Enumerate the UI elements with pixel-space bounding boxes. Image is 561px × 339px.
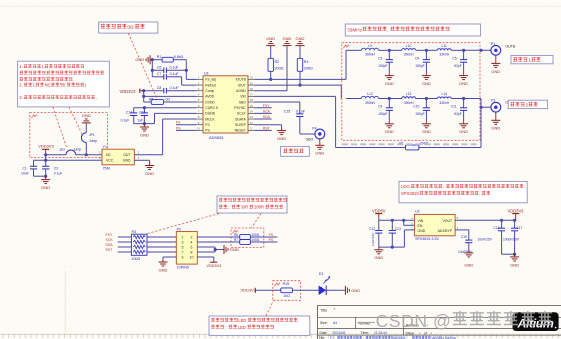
ground port right P2 bbox=[223, 245, 239, 254]
dashed box R6 R7 bbox=[231, 228, 264, 247]
svg-text:LDO: LDO bbox=[401, 184, 410, 189]
power port VDD3V3 LED bbox=[241, 287, 281, 293]
svg-text:GND: GND bbox=[351, 288, 360, 293]
svg-text:IOUT: IOUT bbox=[238, 83, 246, 87]
svg-text:U2: U2 bbox=[415, 210, 420, 214]
ground under C12/C14 bbox=[140, 124, 149, 138]
svg-text:C14: C14 bbox=[126, 110, 132, 114]
svg-text:21:34:44: 21:34:44 bbox=[374, 331, 387, 335]
svg-text:Title: Title bbox=[321, 308, 328, 312]
svg-text:JP1: JP1 bbox=[89, 133, 95, 137]
net label FS right bbox=[269, 233, 274, 237]
svg-text:FS: FS bbox=[205, 123, 210, 127]
leader to R5 bbox=[128, 33, 157, 98]
svg-text:GND: GND bbox=[123, 159, 131, 163]
ground under P2 bbox=[159, 260, 168, 272]
svg-text:DGND: DGND bbox=[205, 112, 215, 116]
net labels FSY SCK SDA RST wires bbox=[106, 233, 177, 252]
note LDO box bbox=[399, 181, 527, 202]
svg-text:VDD3V3: VDD3V3 bbox=[206, 264, 221, 268]
svg-text:P4: P4 bbox=[312, 126, 316, 130]
capacitor C2 0.1uF bbox=[42, 160, 62, 176]
svg-text:200Ω: 200Ω bbox=[275, 66, 284, 70]
svg-text:1.: 1. bbox=[19, 64, 23, 69]
ground LDO output bbox=[510, 254, 519, 267]
svg-text:12: 12 bbox=[250, 121, 254, 125]
svg-text:10PIN5: 10PIN5 bbox=[177, 265, 189, 269]
svg-text:VDD3V3: VDD3V3 bbox=[241, 287, 257, 292]
svg-text:GND: GND bbox=[266, 36, 275, 41]
svg-text:VDD3V3: VDD3V3 bbox=[508, 208, 525, 213]
note digital power 0R box bbox=[99, 22, 158, 33]
resistor R6 100R bbox=[197, 233, 277, 239]
svg-text:10uF/25V: 10uF/25V bbox=[478, 237, 493, 241]
svg-text:390nH: 390nH bbox=[404, 53, 414, 57]
svg-text:11: 11 bbox=[250, 127, 253, 131]
svg-text:,: , bbox=[96, 95, 97, 100]
svg-text:*: * bbox=[334, 307, 336, 312]
svg-text:C19: C19 bbox=[461, 235, 467, 239]
label sine2 out box bbox=[508, 100, 547, 108]
ground GND to AGND bbox=[255, 36, 292, 90]
svg-text:150pF: 150pF bbox=[415, 112, 424, 116]
svg-text:16: 16 bbox=[250, 98, 254, 102]
svg-text:R15: R15 bbox=[283, 282, 289, 286]
svg-text:2024/4/6: 2024/4/6 bbox=[333, 331, 346, 335]
svg-text:,: , bbox=[479, 191, 480, 196]
svg-text:NC: NC bbox=[45, 83, 51, 88]
ground GND above R2 bbox=[266, 36, 275, 58]
svg-text:1uF: 1uF bbox=[137, 119, 143, 123]
ground port right LED bbox=[344, 286, 360, 295]
svg-text:Size:: Size: bbox=[320, 321, 328, 325]
ground under C4 bbox=[422, 75, 431, 86]
svg-text:SPX3819: SPX3819 bbox=[401, 191, 419, 196]
svg-text:GND: GND bbox=[230, 247, 239, 252]
note LED box bbox=[209, 316, 310, 335]
capacitor C13 input bbox=[389, 220, 401, 247]
wire P2 pin9 to gnd bbox=[163, 257, 176, 262]
wire output gnd rail bbox=[502, 253, 517, 256]
wire IOUT to filter bbox=[255, 84, 342, 99]
svg-text:C12: C12 bbox=[139, 110, 145, 114]
svg-text:10uF: 10uF bbox=[21, 171, 29, 175]
power port VDD3V3 crystal bbox=[38, 144, 54, 155]
svg-text:2: 2 bbox=[526, 102, 529, 107]
svg-text:4: 4 bbox=[191, 240, 193, 244]
wire R1-C6 to pin1 bbox=[185, 60, 197, 80]
svg-text:10: 10 bbox=[197, 127, 201, 131]
resistor R1 6.8k bbox=[152, 55, 186, 62]
svg-text:,: , bbox=[387, 28, 388, 33]
svg-text:Date:: Date: bbox=[320, 331, 328, 335]
svg-text:R1: R1 bbox=[157, 55, 162, 59]
svg-text:SCLK: SCLK bbox=[237, 112, 247, 116]
svg-text:of: of bbox=[424, 331, 427, 335]
svg-text:FS: FS bbox=[176, 120, 181, 124]
svg-text:VCC: VCC bbox=[106, 159, 114, 163]
wire filter row1 out bbox=[464, 49, 491, 52]
inductor L9 390nH bbox=[346, 44, 389, 57]
svg-text:200R: 200R bbox=[254, 204, 264, 209]
regulator U2 SPX3819 bbox=[411, 210, 458, 242]
svg-text:6: 6 bbox=[191, 245, 193, 249]
capacitor C16 10uF bbox=[478, 220, 506, 254]
svg-text:C2: C2 bbox=[54, 166, 58, 170]
wire Y1 OUT to MCLK pin8 bbox=[134, 119, 196, 155]
svg-text:10: 10 bbox=[190, 255, 194, 259]
svg-text:AD9834: AD9834 bbox=[209, 135, 224, 140]
svg-text:1: 1 bbox=[528, 58, 531, 63]
note crystal usage box bbox=[18, 61, 110, 107]
connector P1 OUTB bbox=[491, 42, 516, 55]
svg-text:GND: GND bbox=[315, 151, 324, 156]
svg-text:AVDD: AVDD bbox=[205, 95, 215, 99]
watermark CSDN bbox=[358, 311, 553, 331]
net label PS right bbox=[269, 238, 274, 242]
svg-text:82pF: 82pF bbox=[454, 64, 462, 68]
svg-text:33R: 33R bbox=[241, 204, 249, 209]
svg-text:ADJ/BYP: ADJ/BYP bbox=[438, 229, 453, 233]
svg-text:GND: GND bbox=[422, 81, 431, 86]
wire caps bottom rail bbox=[34, 175, 48, 178]
svg-text:GND: GND bbox=[459, 129, 468, 134]
svg-text:L13: L13 bbox=[406, 92, 412, 96]
connector P3 OUTA bbox=[491, 99, 516, 113]
ground right of Y1 bbox=[145, 163, 154, 176]
svg-text:R3: R3 bbox=[132, 230, 137, 234]
resistor R7 100R bbox=[197, 238, 277, 244]
svg-text:VIN: VIN bbox=[240, 95, 246, 99]
ground under P3 bbox=[491, 112, 500, 131]
svg-text:Y1: Y1 bbox=[103, 145, 108, 149]
title block bbox=[318, 305, 561, 339]
power port VDD3V3 under P2 bbox=[197, 257, 221, 268]
svg-text:8: 8 bbox=[191, 250, 193, 254]
ground GND above JP1 bbox=[82, 113, 91, 123]
svg-text:GND: GND bbox=[422, 129, 431, 134]
svg-text:A4: A4 bbox=[333, 321, 337, 325]
power port VDD3V3 out bbox=[508, 208, 525, 220]
svg-text:C3: C3 bbox=[378, 56, 382, 60]
svg-text:GND: GND bbox=[41, 185, 50, 190]
wire input gnd rail bbox=[379, 246, 405, 249]
LED D1 bbox=[319, 272, 345, 295]
svg-text:C6: C6 bbox=[157, 66, 162, 70]
ground GND port left of R1 bbox=[135, 55, 152, 64]
svg-text:9: 9 bbox=[182, 255, 184, 259]
svg-text:LED: LED bbox=[238, 318, 246, 323]
svg-text:0Ω: 0Ω bbox=[127, 24, 134, 30]
svg-text:FS: FS bbox=[269, 233, 274, 237]
svg-text:7: 7 bbox=[182, 250, 184, 254]
wire SLEEP to gnd bbox=[255, 125, 282, 131]
inductor L14 330nH bbox=[426, 92, 463, 105]
svg-text:C13: C13 bbox=[395, 227, 401, 231]
svg-text:0.1uF: 0.1uF bbox=[296, 110, 305, 114]
svg-text:R6: R6 bbox=[234, 233, 238, 237]
svg-text:OUT: OUT bbox=[123, 153, 131, 157]
svg-text:330nH: 330nH bbox=[439, 53, 449, 57]
svg-text:C16: C16 bbox=[493, 226, 499, 230]
svg-text:Comp: Comp bbox=[205, 89, 214, 93]
svg-text:SCK: SCK bbox=[106, 238, 114, 242]
svg-text:18: 18 bbox=[250, 87, 254, 91]
wire EN tie bbox=[404, 220, 415, 225]
ground under P1 bbox=[491, 55, 500, 74]
dashed box 33MHz filter bbox=[342, 43, 480, 141]
svg-text:DVDD: DVDD bbox=[205, 100, 215, 104]
svg-text:20: 20 bbox=[250, 76, 254, 80]
connector P2 header bbox=[176, 228, 197, 270]
svg-text:GND: GND bbox=[491, 69, 500, 74]
svg-text:R2: R2 bbox=[275, 60, 280, 64]
svg-text:5: 5 bbox=[182, 245, 184, 249]
wire caps gnd rail to DGND pin7 bbox=[134, 113, 197, 125]
capacitor C12b 10uF input bbox=[369, 220, 382, 247]
svg-text:100Ω: 100Ω bbox=[251, 238, 260, 242]
testpoint P4 SBO bbox=[306, 126, 325, 141]
svg-text:GND: GND bbox=[491, 126, 500, 131]
wire Y1 GND pin bbox=[134, 160, 149, 165]
svg-text:13: 13 bbox=[250, 115, 254, 119]
svg-text:GND: GND bbox=[464, 262, 473, 267]
svg-text:VIN: VIN bbox=[418, 219, 424, 223]
capacitor C10 150pF bbox=[413, 97, 430, 123]
svg-text:C7: C7 bbox=[157, 72, 162, 76]
svg-text:VDD5V: VDD5V bbox=[372, 208, 386, 213]
capacitor C19 10nF bbox=[455, 230, 473, 254]
svg-text:SBO: SBO bbox=[239, 100, 246, 104]
svg-text:390nH: 390nH bbox=[365, 53, 375, 57]
svg-text:19: 19 bbox=[250, 81, 254, 85]
label square wave out box bbox=[281, 146, 310, 156]
svg-text:RefOut: RefOut bbox=[205, 83, 216, 87]
svg-text:1kΩ: 1kΩ bbox=[284, 294, 291, 298]
wire CAP2.5 rail bbox=[134, 106, 197, 109]
svg-text:CAP/2.5: CAP/2.5 bbox=[205, 106, 218, 110]
svg-text:GND: GND bbox=[277, 136, 286, 141]
wire VDD5V rail bbox=[379, 219, 415, 222]
svg-text:Jump: Jump bbox=[89, 139, 97, 143]
wire VOUT rail bbox=[455, 219, 516, 222]
svg-text:FSY: FSY bbox=[106, 233, 113, 237]
capacitor C14 0.1uF bbox=[121, 108, 138, 124]
svg-text:C17: C17 bbox=[516, 226, 522, 230]
svg-text:0Ω: 0Ω bbox=[166, 97, 171, 101]
svg-text:PS: PS bbox=[269, 238, 274, 242]
dashed box R15 bbox=[273, 281, 301, 301]
svg-text:Sheet: Sheet bbox=[406, 331, 415, 335]
svg-text:6.8kΩ: 6.8kΩ bbox=[174, 55, 184, 59]
op-amp U1 AD9834 body bbox=[203, 70, 248, 140]
svg-text:10uF/16V: 10uF/16V bbox=[371, 232, 375, 246]
svg-text:14: 14 bbox=[250, 110, 254, 114]
capacitor C1 10uF bbox=[21, 160, 37, 176]
capacitor C9 150pF bbox=[378, 97, 393, 123]
jumper JP1 bbox=[81, 123, 97, 155]
blanket dashed line bbox=[342, 143, 478, 145]
ground under C5 bbox=[459, 75, 468, 86]
wire filter row2 out bbox=[464, 99, 491, 109]
leader to JP1 bbox=[69, 107, 82, 134]
svg-text:Jump: Jump bbox=[73, 148, 81, 152]
svg-text:SDA: SDA bbox=[106, 243, 114, 247]
leader to JP2 bbox=[53, 107, 67, 149]
svg-text:C11: C11 bbox=[451, 105, 457, 109]
svg-text:GND: GND bbox=[385, 129, 394, 134]
inductor L10 390nH bbox=[389, 44, 426, 57]
svg-text:3.: 3. bbox=[19, 95, 23, 100]
ground under SLEEP bbox=[277, 129, 286, 141]
wire SBO to C15 bbox=[255, 102, 300, 114]
capacitor C15 0.1uF bbox=[284, 110, 315, 134]
svg-text:;: ; bbox=[524, 184, 525, 189]
svg-text:150pF: 150pF bbox=[378, 112, 387, 116]
net label FSY bbox=[255, 104, 272, 108]
ground under P4 bbox=[315, 139, 324, 156]
resistor network R3 100R bbox=[131, 230, 147, 261]
inductor L12 390nH bbox=[346, 92, 389, 105]
svg-text:FS_adj: FS_adj bbox=[205, 78, 216, 82]
svg-text:R4: R4 bbox=[304, 60, 309, 64]
inductor L13 390nH bbox=[389, 92, 426, 105]
svg-text:0.1uF: 0.1uF bbox=[170, 86, 179, 90]
capacitor C8 0.1uF bbox=[142, 86, 196, 93]
svg-text:—CSDN @: —CSDN @ bbox=[358, 311, 452, 331]
ground LDO input bbox=[374, 247, 383, 260]
node junction R1/C6/C7 column bbox=[151, 58, 154, 77]
svg-text:R7: R7 bbox=[234, 238, 238, 242]
ground under C9 bbox=[385, 123, 394, 134]
note 33MHz filter box bbox=[345, 24, 480, 36]
inductor L11 330nH bbox=[426, 44, 463, 57]
svg-text:VDD3V3: VDD3V3 bbox=[120, 89, 137, 94]
svg-text:OUTB: OUTB bbox=[505, 44, 516, 48]
svg-text:.: . bbox=[491, 191, 492, 196]
svg-text:GND: GND bbox=[283, 36, 292, 41]
ground under C1 C2 bbox=[41, 176, 50, 190]
svg-text:RST: RST bbox=[106, 248, 114, 252]
svg-text:0.1uF: 0.1uF bbox=[170, 72, 179, 76]
svg-text:U1: U1 bbox=[204, 70, 209, 75]
capacitor C12 1uF bbox=[137, 108, 148, 124]
svg-text:GND: GND bbox=[385, 81, 394, 86]
svg-text:C9: C9 bbox=[378, 105, 382, 109]
svg-text:L9: L9 bbox=[368, 44, 372, 48]
svg-text:330nH: 330nH bbox=[439, 101, 449, 105]
svg-text:C10: C10 bbox=[413, 105, 419, 109]
svg-text:D1: D1 bbox=[319, 272, 324, 276]
dashed box crystal section bbox=[30, 112, 108, 157]
svg-text:C12: C12 bbox=[369, 227, 375, 231]
net label SCK bbox=[255, 110, 272, 114]
capacitor C7 0.1uF bbox=[152, 72, 196, 85]
svg-text:PS: PS bbox=[176, 126, 181, 130]
svg-text:GND: GND bbox=[374, 255, 383, 260]
svg-text:2.: 2. bbox=[19, 83, 23, 88]
resistor R2 200R bbox=[268, 58, 284, 79]
svg-text:L10: L10 bbox=[406, 44, 412, 48]
svg-text:MCLK: MCLK bbox=[205, 117, 215, 121]
capacitor C6 0.1uF bbox=[152, 66, 186, 74]
svg-text:0.1uF: 0.1uF bbox=[170, 66, 179, 70]
svg-text:100Ω: 100Ω bbox=[251, 233, 260, 237]
wire IOUTB to filter bbox=[255, 50, 347, 81]
svg-text:GND: GND bbox=[296, 36, 305, 41]
svg-text:,: , bbox=[443, 184, 444, 189]
U1 pins bbox=[197, 76, 255, 133]
ground under C3 bbox=[385, 75, 394, 86]
wire U2 gnd pin bbox=[404, 230, 414, 247]
resistor R4 200R bbox=[297, 58, 313, 85]
svg-text:IOUTB: IOUTB bbox=[236, 78, 247, 82]
Altium logo bbox=[513, 312, 559, 331]
svg-text:L11: L11 bbox=[442, 44, 447, 48]
svg-text:C5: C5 bbox=[452, 56, 456, 60]
svg-text:GND: GND bbox=[145, 171, 154, 176]
wire VDD to Y1 VCC bbox=[34, 155, 103, 162]
svg-text:LED: LED bbox=[238, 325, 246, 330]
wire VDD rail to AVDD pin4 bbox=[142, 91, 196, 98]
svg-text:75M: 75M bbox=[103, 166, 110, 170]
svg-text:GND: GND bbox=[418, 229, 426, 233]
svg-text:100Ω: 100Ω bbox=[132, 257, 141, 261]
power port VDD3V3 left bbox=[120, 89, 144, 95]
svg-text:JP2: JP2 bbox=[59, 148, 65, 152]
net label FS pin9 bbox=[176, 120, 197, 124]
resistor R1b 200R feedback bbox=[399, 107, 481, 150]
svg-text:VOUT: VOUT bbox=[442, 219, 453, 223]
svg-text:,: , bbox=[228, 204, 229, 209]
svg-text:SLEEP: SLEEP bbox=[235, 123, 247, 127]
svg-text:GND: GND bbox=[82, 113, 91, 118]
ground GND above R4 bbox=[296, 36, 305, 58]
svg-text:C4: C4 bbox=[415, 56, 419, 60]
svg-text:17: 17 bbox=[250, 93, 254, 97]
capacitor C5 82pF bbox=[452, 49, 467, 75]
svg-text:0.1uF: 0.1uF bbox=[121, 119, 130, 123]
svg-text:SPX3819-3.3V: SPX3819-3.3V bbox=[415, 237, 439, 241]
crystal Y1 75M bbox=[102, 145, 140, 170]
jumper JP2 bbox=[44, 148, 102, 157]
net label RST bbox=[255, 127, 272, 131]
leader to R6R7 bbox=[252, 214, 262, 228]
capacitor C11 82pF bbox=[451, 97, 467, 123]
svg-text:33MHz: 33MHz bbox=[347, 28, 363, 33]
svg-text:SDATA: SDATA bbox=[235, 117, 246, 121]
capacitor C17 100uF bbox=[503, 220, 523, 254]
svg-text:3: 3 bbox=[182, 240, 184, 244]
svg-text:PSYNC: PSYNC bbox=[234, 106, 246, 110]
resistor R5 0R to DVDD bbox=[144, 96, 197, 104]
ground under C19 bbox=[464, 252, 473, 267]
svg-text:15: 15 bbox=[250, 104, 254, 108]
svg-text:100uF/50V: 100uF/50V bbox=[503, 237, 520, 241]
svg-text:L12: L12 bbox=[367, 92, 373, 96]
svg-text:2: 2 bbox=[191, 235, 193, 239]
svg-text:VDD3V3: VDD3V3 bbox=[38, 144, 54, 149]
svg-text:EN: EN bbox=[418, 224, 423, 228]
svg-text:C1: C1 bbox=[22, 166, 26, 170]
svg-text:200Ω: 200Ω bbox=[304, 66, 313, 70]
leader to R15 bbox=[266, 301, 274, 316]
svg-text:RESET: RESET bbox=[235, 129, 246, 133]
svg-text:C8: C8 bbox=[157, 86, 162, 90]
svg-text:82pF: 82pF bbox=[454, 112, 462, 116]
net label SDA bbox=[255, 115, 272, 119]
svg-text:NC: NC bbox=[106, 153, 112, 157]
